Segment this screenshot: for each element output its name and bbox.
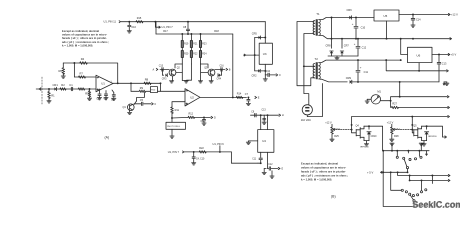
svg-text:C7: C7	[245, 93, 249, 96]
svg-text:Q3: Q3	[204, 67, 208, 69]
wire U1 pin 11 rail	[121, 21, 265, 23]
svg-text:R19: R19	[184, 44, 189, 46]
svg-text:R25: R25	[334, 135, 339, 138]
wire U2 noninv	[172, 102, 185, 107]
svg-text:k = 1,000. M = 1,000,000: k = 1,000. M = 1,000,000.	[62, 44, 93, 48]
svg-text:R6: R6	[59, 69, 63, 73]
wire T1 sec top	[320, 17, 374, 20]
svg-text:C: C	[279, 74, 281, 77]
wire shield dashed	[41, 77, 43, 104]
svg-text:C10: C10	[266, 71, 271, 73]
ground under C7	[246, 103, 250, 105]
capacitor C22	[354, 38, 367, 56]
svg-text:CR9: CR9	[346, 76, 352, 80]
wire CR5 left leg	[254, 38, 256, 71]
resistor R4	[80, 57, 88, 64]
capacitor C9	[266, 71, 276, 76]
svg-text:+12 V: +12 V	[451, 13, 458, 17]
resistor R18	[214, 30, 219, 33]
svg-text:E: E	[258, 96, 260, 99]
svg-text:U1, PIN 7: U1, PIN 7	[168, 150, 180, 154]
svg-text:110 VAC: 110 VAC	[301, 118, 311, 122]
wire rail down leg	[399, 82, 401, 98]
wire mid chain	[187, 64, 192, 80]
wire 12V rail	[352, 116, 448, 118]
svg-text:NULL: NULL	[334, 128, 341, 131]
wire R27 line	[398, 107, 447, 109]
resistor R27	[391, 103, 398, 109]
svg-text:ads ( pF ) ; resistances are i: ads ( pF ) ; resistances are in ohms ;	[301, 174, 348, 178]
IC U4	[258, 130, 274, 153]
svg-text:C10: C10	[361, 26, 366, 29]
svg-text:D: D	[214, 116, 216, 119]
svg-text:C11: C11	[364, 71, 369, 74]
transistor Q5	[413, 124, 421, 140]
resistor R8	[144, 77, 151, 84]
wire U6 ground	[418, 63, 420, 72]
capacitor C18	[252, 152, 262, 164]
wire inverting input	[74, 63, 96, 77]
ground under R1	[47, 101, 51, 103]
wire Q2 links	[160, 64, 182, 81]
ground S1A left	[390, 143, 394, 146]
svg-text:CR7: CR7	[344, 44, 350, 47]
node E output	[255, 96, 260, 99]
svg-text:T2: T2	[315, 57, 319, 61]
resistor R15	[136, 17, 143, 23]
ground under C17	[192, 163, 196, 165]
capacitor C19	[264, 164, 278, 172]
wire to U4 bottom	[231, 152, 258, 163]
capacitor C8	[183, 22, 190, 34]
node out 2	[448, 179, 450, 181]
wire U5 ground	[386, 21, 388, 39]
photocell R13	[166, 118, 186, 136]
svg-text:C14: C14	[416, 19, 421, 22]
svg-text:values of capacitance are in m: values of capacitance are in micro-	[62, 33, 107, 37]
svg-text:(B): (B)	[331, 195, 336, 199]
wire primary 4	[307, 84, 322, 117]
node C output	[152, 103, 157, 106]
ground under C2	[97, 98, 101, 100]
diode CR4	[217, 69, 222, 80]
ground under C16	[127, 31, 131, 33]
wire Q4 gate drop	[351, 117, 357, 133]
svg-text:CR1: CR1	[53, 83, 59, 87]
svg-text:U4: U4	[262, 139, 266, 143]
svg-text:IRF9Z30: IRF9Z30	[428, 136, 437, 138]
wire T1 sec bottom	[320, 36, 451, 40]
capacitor C2	[96, 89, 101, 101]
resistor R24	[199, 48, 207, 65]
svg-text:C13: C13	[442, 62, 447, 65]
ground stub aux	[443, 82, 449, 86]
svg-text:CR6: CR6	[347, 8, 353, 12]
capacitor C11A	[220, 66, 226, 72]
svg-text:R21: R21	[193, 44, 198, 46]
resistor R12	[188, 113, 195, 119]
svg-text:values of capacitance are in m: values of capacitance are in micro-	[301, 166, 346, 170]
svg-text:R14: R14	[237, 93, 242, 96]
label A section	[105, 136, 110, 140]
ground under U3 out	[263, 75, 267, 81]
wire pin7 line	[184, 151, 231, 153]
svg-text:C1: C1	[69, 83, 73, 87]
potentiometer R28	[391, 127, 413, 139]
resistor R17	[163, 30, 168, 33]
svg-text:R11: R11	[175, 109, 180, 112]
node aux out	[447, 70, 449, 72]
wire upper branch	[131, 82, 161, 84]
wire meter right	[381, 97, 448, 102]
diode CR7	[340, 39, 349, 56]
diode CR1	[53, 83, 59, 90]
svg-text:R18: R18	[214, 30, 219, 33]
svg-text:CR8: CR8	[326, 44, 332, 47]
svg-text:Q2: Q2	[177, 67, 181, 69]
label B section	[331, 195, 336, 199]
svg-text:C15: C15	[159, 66, 164, 68]
svg-text:R12: R12	[189, 113, 194, 116]
svg-text:+: +	[354, 42, 356, 46]
IC U5	[374, 10, 399, 21]
svg-text:+12 V: +12 V	[325, 121, 332, 124]
capacitor C21	[352, 18, 366, 39]
capacitor C10A	[159, 66, 164, 72]
svg-text:C5: C5	[140, 99, 144, 102]
resistor R20	[181, 48, 189, 65]
svg-text:IRF9Z30: IRF9Z30	[360, 146, 369, 148]
ground under C3	[104, 98, 108, 100]
wire AGC vertical	[232, 34, 234, 97]
wire tap to Q1	[137, 93, 145, 102]
wire T2 sec top	[320, 59, 401, 62]
svg-text:farads ( uF ) ; others are in: farads ( uF ) ; others are in picofar-	[301, 170, 346, 174]
wire U4 top pins	[251, 114, 279, 129]
IC U3	[259, 43, 272, 64]
wire U2 output	[200, 96, 247, 98]
svg-text:C4, C10: C4, C10	[196, 158, 205, 160]
svg-text:A: A	[153, 68, 155, 71]
resistor R6 divider	[59, 63, 65, 76]
svg-text:U1: U1	[101, 82, 105, 86]
svg-text:R4: R4	[81, 57, 85, 61]
node D output	[211, 116, 216, 119]
svg-text:R2: R2	[61, 83, 65, 87]
ground under R6	[61, 76, 65, 78]
transistor Q1	[123, 101, 137, 110]
svg-text:G: G	[281, 168, 283, 171]
resistor R11	[171, 107, 180, 119]
svg-text:CR2: CR2	[252, 75, 258, 78]
capacitor C23	[411, 15, 421, 25]
svg-text:C11: C11	[252, 158, 257, 160]
wire Q4 out	[369, 126, 383, 151]
wire Q3 links	[201, 64, 222, 81]
resistor R22	[190, 48, 198, 65]
svg-text:(A): (A)	[105, 136, 110, 140]
svg-text:Except as indicated, decimal: Except as indicated, decimal	[301, 162, 338, 166]
capacitor C6	[201, 117, 206, 122]
wire U6 out	[432, 54, 449, 56]
watermark SeekIC.com	[412, 200, 460, 210]
note text A	[62, 29, 109, 48]
capacitor C17	[192, 152, 205, 163]
capacitor C25	[437, 55, 447, 82]
svg-text:CR5: CR5	[252, 32, 258, 35]
svg-text:U2: U2	[190, 95, 194, 99]
wire out line 1	[397, 171, 449, 176]
svg-text:U3: U3	[263, 52, 267, 56]
wire left drop	[382, 150, 413, 207]
arrow to U1 pin 7	[155, 22, 173, 30]
IC U6	[408, 47, 433, 62]
switch S1A	[396, 151, 422, 174]
label +12V left	[325, 121, 332, 127]
transformer T1	[313, 12, 320, 36]
resistor R1	[48, 89, 55, 101]
diode CR11	[422, 125, 438, 140]
wire branch	[172, 116, 188, 119]
switch S1B	[401, 189, 427, 207]
node +5V	[448, 53, 456, 57]
svg-text:R10: R10	[151, 90, 156, 92]
ground under Q3	[209, 76, 213, 83]
ground S1A right	[419, 143, 423, 146]
resistor R23	[199, 34, 207, 48]
wire primary 3	[304, 65, 315, 67]
svg-text:C16: C16	[220, 66, 225, 68]
svg-text:SeekIC.com: SeekIC.com	[413, 200, 460, 210]
wire Q5 out	[427, 126, 445, 137]
wire U4 bottom pin2	[268, 152, 269, 168]
ground under C23	[411, 25, 415, 27]
ground under R5	[87, 98, 91, 100]
svg-text:C4: C4	[111, 98, 115, 101]
connector J1 audio input	[36, 88, 41, 91]
ground meter	[365, 101, 369, 103]
svg-text:U6: U6	[417, 53, 421, 57]
ground left of U4	[246, 141, 257, 145]
diode CR10	[364, 125, 377, 140]
wire after CR9	[352, 81, 439, 83]
svg-text:Except as indicated, decimal: Except as indicated, decimal	[62, 29, 99, 33]
wire to U3 top	[264, 22, 266, 44]
svg-text:U5: U5	[384, 14, 388, 18]
resistor R21	[190, 34, 198, 48]
svg-text:PHOTOCELL: PHOTOCELL	[167, 126, 181, 128]
ground under C6	[202, 123, 206, 125]
capacitor C5	[134, 99, 151, 106]
node H output	[279, 114, 284, 117]
transistor Q2	[169, 67, 180, 76]
svg-text:C9: C9	[251, 111, 255, 113]
svg-text:R7: R7	[80, 71, 84, 75]
capacitor C7	[245, 93, 250, 103]
svg-text:R9: R9	[140, 87, 144, 90]
svg-text:R15: R15	[137, 17, 142, 20]
svg-text:R28: R28	[394, 135, 399, 138]
wire switch rail	[383, 150, 430, 152]
node F output	[276, 74, 281, 77]
svg-text:+: +	[352, 22, 354, 26]
svg-text:C12: C12	[362, 46, 367, 49]
svg-text:R17: R17	[163, 30, 168, 33]
svg-text:R22: R22	[193, 54, 198, 56]
svg-text:U1, PIN 11: U1, PIN 11	[104, 20, 117, 24]
wire meter left	[367, 99, 371, 101]
wire aux rail	[386, 60, 447, 71]
svg-text:R23: R23	[202, 44, 207, 46]
svg-text:T1: T1	[316, 12, 320, 16]
svg-text:farads ( uF ) ; others are in: farads ( uF ) ; others are in picofar-	[62, 36, 107, 40]
transformer T2	[313, 57, 320, 79]
resistor R9	[139, 87, 146, 93]
node B input	[226, 68, 231, 71]
label U1 pin 11	[104, 20, 121, 24]
svg-text:R22: R22	[199, 147, 204, 150]
node rail out	[448, 115, 450, 117]
svg-text:+ 5 V: + 5 V	[367, 170, 374, 174]
wire R27 tee	[390, 101, 392, 108]
resistor R2	[60, 83, 66, 90]
transistor Q4	[356, 124, 365, 140]
node out 1	[448, 174, 450, 176]
ground under Q4	[360, 141, 369, 149]
diode CR5	[252, 32, 265, 39]
svg-text:k = 1,000. M = 1,000,000: k = 1,000. M = 1,000,000.	[301, 178, 332, 182]
op-amp U1	[96, 75, 113, 92]
wire U3 bottom	[265, 64, 267, 75]
resistor R7	[79, 71, 86, 78]
svg-text:C12: C12	[268, 164, 273, 166]
wire AGC top	[156, 22, 233, 35]
ground under C20 branch	[262, 115, 266, 124]
resistor R3	[78, 88, 85, 90]
svg-text:U1, PIN 6: U1, PIN 6	[213, 142, 225, 146]
diode CR2	[252, 69, 267, 77]
op-amp U2	[185, 89, 200, 106]
ground under photocell	[170, 136, 174, 138]
capacitor C3	[104, 91, 108, 101]
wire out line 2	[409, 175, 449, 182]
svg-text:ads ( pF ) ; resistances are i: ads ( pF ) ; resistances are in ohms ;	[62, 40, 109, 44]
diode CR8	[326, 18, 334, 57]
svg-text:R5: R5	[85, 92, 89, 96]
ground diode common	[335, 56, 339, 60]
svg-text:CR10: CR10	[371, 136, 378, 138]
node A input	[153, 68, 158, 71]
ground under R26	[330, 139, 334, 141]
resistor R19	[181, 34, 189, 48]
svg-text:B: B	[229, 68, 231, 71]
ground under Q1	[128, 110, 132, 114]
ground under R24	[198, 81, 202, 84]
svg-text:C8: C8	[183, 26, 187, 29]
trimmer R10 box	[150, 87, 157, 93]
svg-text:R20: R20	[184, 54, 189, 56]
svg-text:+12 V: +12 V	[387, 121, 394, 124]
wire diode common	[328, 55, 358, 57]
wire S1B feed	[390, 171, 433, 190]
diode CR3	[162, 69, 168, 80]
svg-text:CR3: CR3	[162, 79, 167, 81]
svg-text:+: +	[360, 66, 362, 70]
wire Q5 gate drop	[411, 117, 413, 133]
diode CR6	[347, 8, 353, 19]
wire input line	[39, 88, 96, 90]
svg-text:R8: R8	[145, 77, 149, 81]
svg-text:R24: R24	[202, 54, 207, 56]
meter M1	[371, 90, 381, 104]
wire U5 out	[399, 14, 449, 16]
resistor R25	[199, 147, 206, 153]
svg-text:Q4: Q4	[356, 124, 360, 127]
label U1 pin 7 feed	[168, 150, 184, 154]
svg-text:M1: M1	[377, 90, 381, 94]
svg-text:C13: C13	[262, 110, 267, 112]
svg-text:C16: C16	[131, 26, 136, 29]
wire U1 output	[113, 82, 132, 84]
transistor Q3	[204, 67, 215, 76]
ground under C4	[112, 98, 116, 100]
wire primary 1	[297, 22, 315, 86]
label +12V right	[387, 121, 394, 127]
node meter out	[447, 96, 449, 98]
capacitor C20	[251, 110, 266, 117]
wire U6 feed	[400, 38, 408, 61]
capacitor C24	[356, 60, 369, 82]
svg-text:CR4: CR4	[217, 79, 222, 81]
svg-text:H: H	[282, 114, 284, 117]
ground under R28	[390, 139, 394, 141]
wire primary 2	[303, 34, 314, 105]
wire lower branch	[131, 83, 161, 91]
ground under Q5	[422, 141, 426, 146]
wire T2 sec bottom	[320, 79, 347, 82]
diode CR9	[346, 76, 352, 84]
svg-text:R1: R1	[51, 94, 55, 98]
capacitor C4	[111, 90, 115, 101]
capacitor C1	[69, 83, 73, 91]
svg-text:NULL: NULL	[394, 128, 401, 131]
svg-text:R27: R27	[392, 103, 397, 106]
capacitor C16	[128, 22, 137, 31]
node +5V label	[367, 170, 408, 174]
potentiometer R26	[331, 127, 352, 139]
node +12V	[448, 13, 458, 17]
wire to U2	[161, 90, 186, 92]
svg-text:Q5: Q5	[413, 124, 417, 127]
resistor R5	[85, 88, 91, 98]
node R27 out	[448, 106, 450, 108]
wire after R12	[195, 116, 211, 118]
svg-text:C: C	[154, 103, 156, 106]
wire feedback	[63, 62, 117, 83]
wire S1A top links	[391, 146, 427, 155]
connector P1 110VAC	[301, 105, 313, 122]
ground under C19	[262, 171, 274, 178]
wire U3 input	[244, 54, 260, 56]
resistor R14	[236, 93, 243, 99]
svg-text:U1, PIN 7: U1, PIN 7	[162, 25, 174, 29]
svg-text:+5 V: +5 V	[451, 53, 457, 57]
label U1 pin 6	[213, 142, 225, 152]
node Q5 out	[445, 136, 447, 138]
svg-text:2: 2	[97, 77, 99, 79]
ground under Q2	[170, 76, 174, 83]
svg-text:Q1: Q1	[123, 106, 127, 109]
